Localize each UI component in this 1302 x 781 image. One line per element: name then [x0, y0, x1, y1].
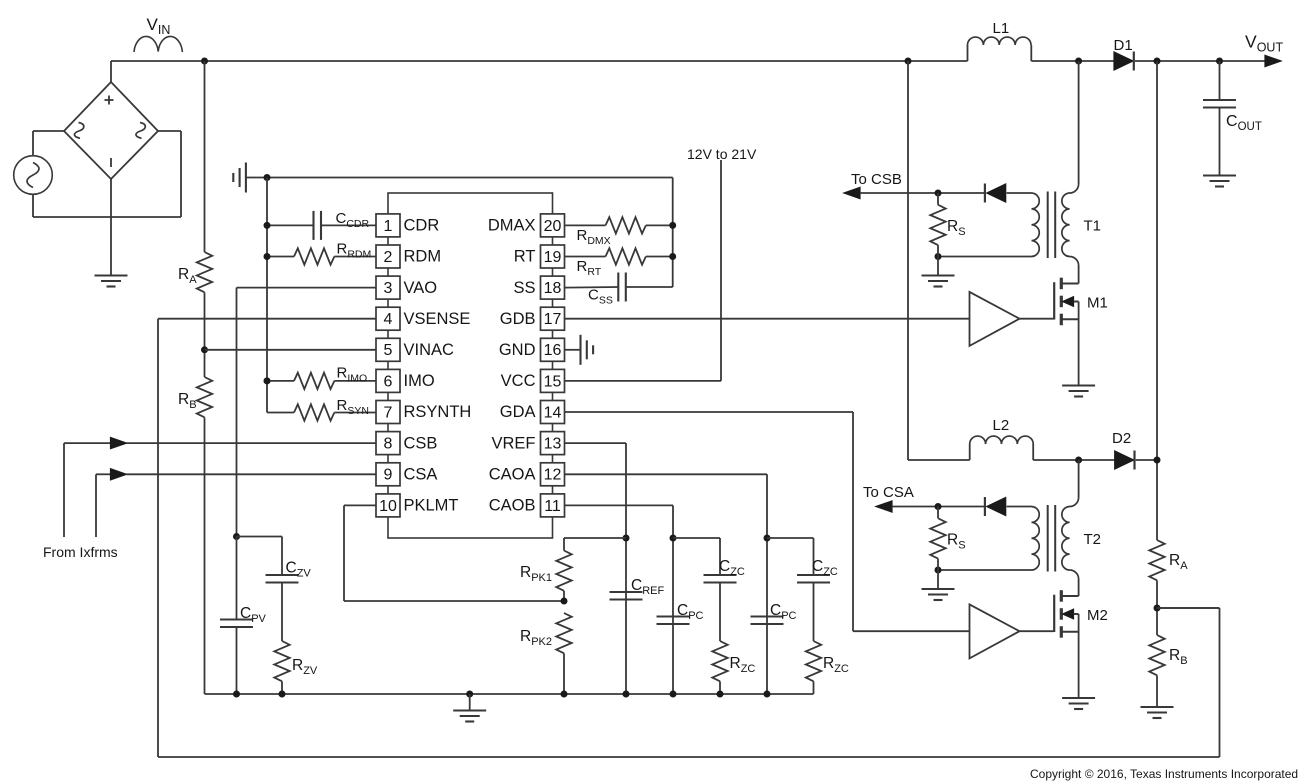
svg-text:PKLMT: PKLMT: [404, 497, 459, 515]
svg-text:GDA: GDA: [500, 403, 536, 421]
svg-text:CSA: CSA: [404, 466, 438, 484]
svg-text:RZC: RZC: [823, 655, 849, 675]
svg-text:VIN: VIN: [147, 15, 171, 37]
svg-text:T2: T2: [1084, 531, 1102, 548]
svg-text:RB: RB: [178, 391, 197, 411]
svg-text:RA: RA: [1169, 552, 1188, 572]
svg-text:CZV: CZV: [286, 560, 312, 580]
svg-text:CPC: CPC: [677, 602, 704, 622]
svg-text:VCC: VCC: [501, 372, 536, 390]
svg-text:VAO: VAO: [404, 279, 438, 297]
svg-text:RRDM: RRDM: [337, 241, 372, 261]
svg-text:RA: RA: [178, 266, 197, 286]
svg-text:12V to 21V: 12V to 21V: [687, 146, 757, 162]
svg-text:RS: RS: [947, 218, 966, 238]
svg-text:GDB: GDB: [500, 310, 536, 328]
svg-text:RPK1: RPK1: [520, 564, 552, 584]
svg-text:CAOB: CAOB: [489, 497, 536, 515]
svg-text:CREF: CREF: [631, 577, 664, 597]
svg-text:19: 19: [544, 249, 562, 266]
svg-text:Copyright © 2016, Texas Instru: Copyright © 2016, Texas Instruments Inco…: [1030, 767, 1298, 781]
svg-text:17: 17: [544, 311, 562, 328]
svg-text:COUT: COUT: [1226, 113, 1262, 133]
svg-text:D1: D1: [1114, 37, 1133, 54]
svg-text:CPC: CPC: [770, 602, 797, 622]
svg-text:20: 20: [544, 218, 562, 235]
svg-text:CCDR: CCDR: [336, 210, 370, 230]
svg-text:RPK2: RPK2: [520, 628, 552, 648]
svg-text:RRT: RRT: [577, 258, 602, 278]
svg-text:2: 2: [384, 249, 393, 266]
svg-text:RSYNTH: RSYNTH: [404, 403, 472, 421]
svg-text:4: 4: [384, 311, 393, 328]
svg-text:RSYN: RSYN: [337, 397, 369, 417]
svg-text:RB: RB: [1169, 647, 1188, 667]
svg-text:To CSA: To CSA: [863, 484, 914, 501]
svg-text:10: 10: [379, 498, 397, 515]
svg-text:16: 16: [544, 342, 562, 359]
svg-text:L2: L2: [993, 417, 1010, 434]
svg-text:From Ixfrms: From Ixfrms: [43, 544, 118, 560]
svg-text:3: 3: [384, 280, 393, 297]
svg-text:11: 11: [544, 498, 561, 515]
svg-text:VSENSE: VSENSE: [404, 310, 471, 328]
svg-text:14: 14: [544, 404, 562, 421]
svg-text:15: 15: [544, 373, 562, 390]
svg-text:M1: M1: [1087, 295, 1108, 312]
svg-text:CAOA: CAOA: [489, 466, 536, 484]
svg-text:To CSB: To CSB: [851, 171, 902, 188]
svg-text:RT: RT: [514, 248, 536, 266]
svg-text:SS: SS: [513, 279, 535, 297]
svg-text:7: 7: [384, 404, 393, 421]
svg-text:RS: RS: [947, 532, 966, 552]
svg-text:IMO: IMO: [404, 372, 435, 390]
svg-text:6: 6: [384, 373, 393, 390]
svg-text:1: 1: [384, 218, 393, 235]
svg-text:CDR: CDR: [404, 217, 440, 235]
svg-text:T1: T1: [1084, 218, 1102, 235]
svg-text:DMAX: DMAX: [488, 217, 536, 235]
svg-text:RZV: RZV: [292, 657, 318, 677]
svg-text:5: 5: [384, 342, 393, 359]
svg-text:L1: L1: [993, 20, 1010, 37]
svg-text:9: 9: [384, 467, 393, 484]
svg-text:VINAC: VINAC: [404, 341, 455, 359]
svg-text:VREF: VREF: [491, 434, 535, 452]
svg-text:GND: GND: [499, 341, 536, 359]
svg-text:M2: M2: [1087, 607, 1108, 624]
svg-text:18: 18: [544, 280, 562, 297]
svg-text:RDMX: RDMX: [577, 227, 611, 247]
svg-text:12: 12: [544, 467, 562, 484]
svg-text:8: 8: [384, 436, 393, 453]
svg-text:RZC: RZC: [730, 655, 756, 675]
svg-text:D2: D2: [1112, 430, 1131, 447]
svg-text:VOUT: VOUT: [1245, 32, 1283, 55]
svg-text:CPV: CPV: [240, 605, 267, 625]
svg-text:13: 13: [544, 436, 562, 453]
svg-text:CSS: CSS: [588, 287, 613, 307]
svg-text:CSB: CSB: [404, 434, 438, 452]
svg-text:RDM: RDM: [404, 248, 442, 266]
